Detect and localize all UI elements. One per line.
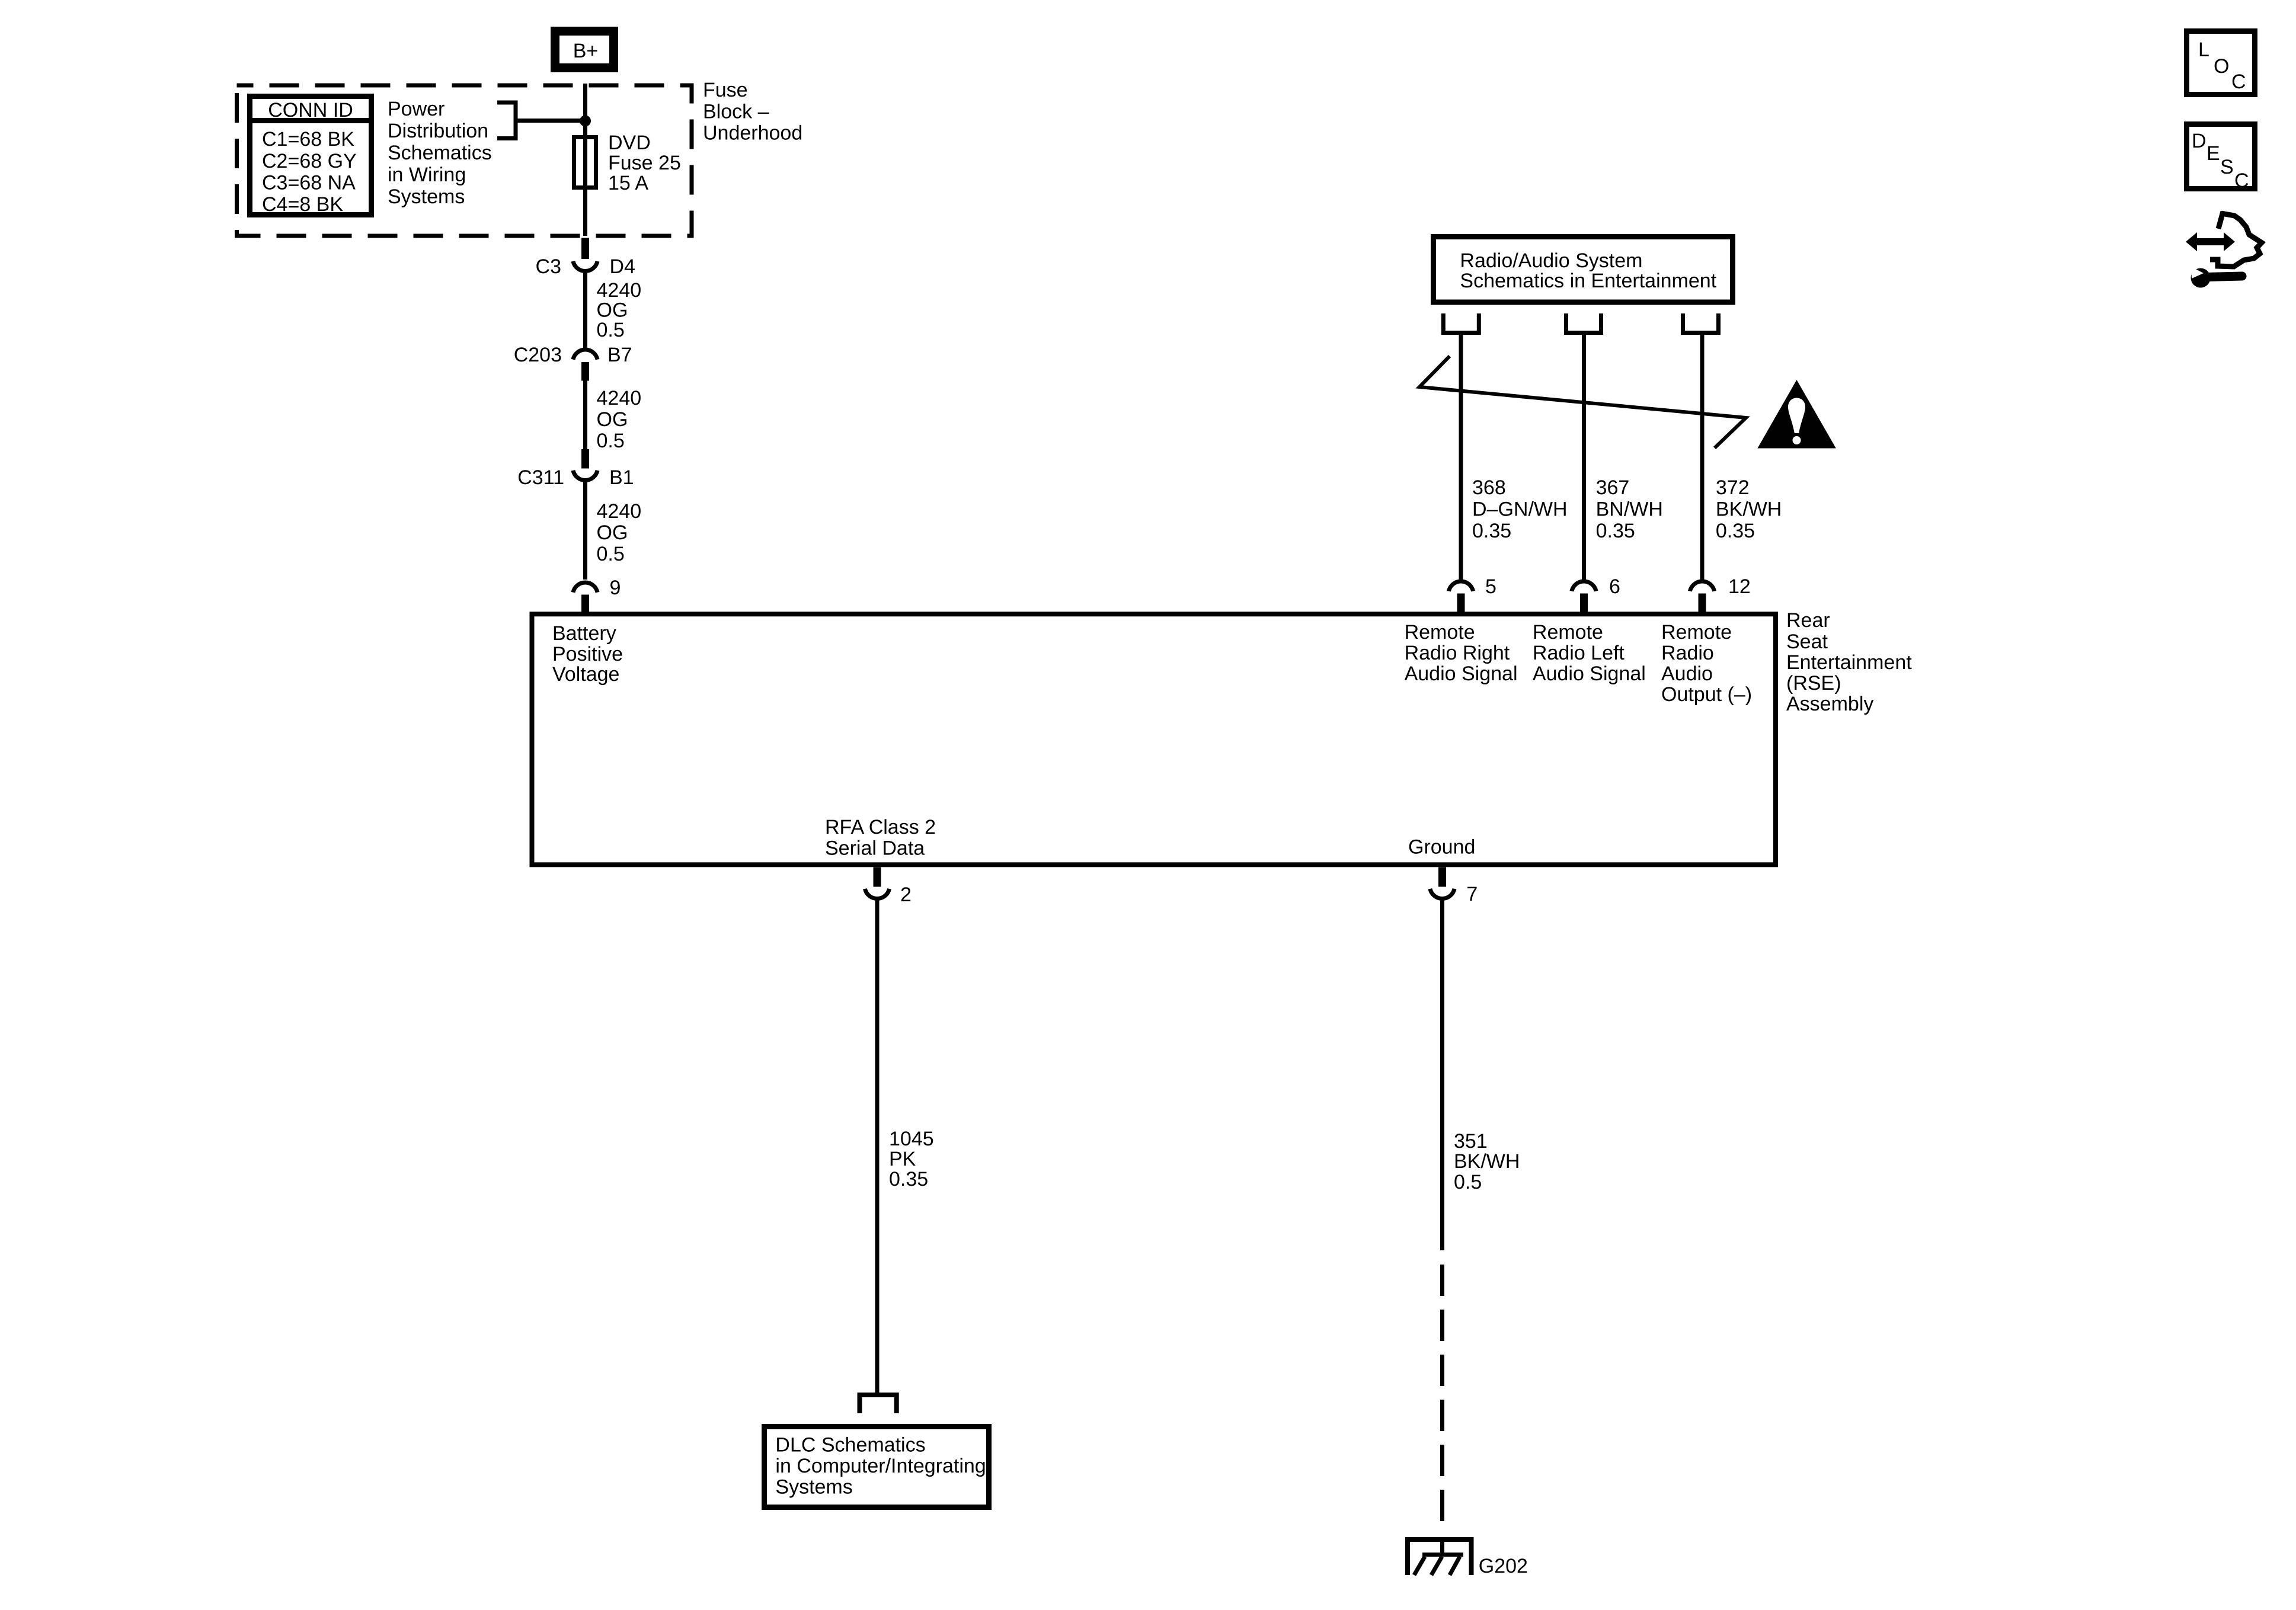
wire fuse to box bottom xyxy=(583,190,587,236)
fuse block dashed box (Fuse Block - Underhood) xyxy=(237,85,692,236)
svg-text:Remote: Remote xyxy=(1405,621,1475,644)
svg-text:S: S xyxy=(2220,156,2234,178)
Rear Seat Entertainment (RSE) Assembly box xyxy=(532,614,1776,865)
pin 6 connector at RSE box xyxy=(1572,575,1620,614)
svg-text:Entertainment: Entertainment xyxy=(1786,651,1912,674)
svg-text:Assembly: Assembly xyxy=(1786,693,1873,715)
svg-text:Battery: Battery xyxy=(552,622,616,645)
svg-text:D4: D4 xyxy=(610,255,635,278)
pin 7 connector at RSE box bottom xyxy=(1430,868,1478,906)
svg-text:C4=8 BK: C4=8 BK xyxy=(262,193,343,216)
label Rear Seat Entertainment (RSE) Assembly xyxy=(1786,609,1912,715)
wire 368 (radio right) xyxy=(1459,333,1463,580)
ground G202 xyxy=(1408,1539,1528,1577)
fuse DVD Fuse 25 15 A xyxy=(574,137,596,190)
svg-text:Ground: Ground xyxy=(1408,836,1475,859)
junction dot xyxy=(580,116,591,127)
svg-text:372: 372 xyxy=(1716,476,1750,499)
svg-text:5: 5 xyxy=(1485,575,1496,598)
svg-text:Power: Power xyxy=(388,98,445,120)
wire pin 7 down (solid) xyxy=(1440,898,1444,1250)
svg-text:DLC Schematics: DLC Schematics xyxy=(775,1434,925,1457)
wire label 367 BN/WH 0.35 xyxy=(1596,476,1663,542)
DLC Schematics box xyxy=(765,1427,989,1507)
svg-text:C311: C311 xyxy=(517,466,564,489)
svg-text:Schematics in Entertainment: Schematics in Entertainment xyxy=(1460,270,1716,292)
svg-text:Systems: Systems xyxy=(388,185,465,208)
svg-text:C3: C3 xyxy=(536,255,561,278)
wire pin 7 down (dashed) xyxy=(1440,1265,1444,1521)
svg-text:C: C xyxy=(2231,71,2246,93)
svg-text:Remote: Remote xyxy=(1661,621,1732,644)
svg-text:0.5: 0.5 xyxy=(597,430,625,452)
bracket stub 2 under Radio/Audio box xyxy=(1566,313,1601,333)
svg-text:Rear: Rear xyxy=(1786,609,1830,632)
svg-text:L: L xyxy=(2198,39,2209,61)
svg-text:Output (–): Output (–) xyxy=(1661,683,1752,706)
svg-text:Radio/Audio System: Radio/Audio System xyxy=(1460,249,1642,272)
wire label 4240 OG 0.5 (2) xyxy=(597,387,642,452)
component view icon (double arrow, outline, wrench) xyxy=(2186,212,2262,288)
svg-text:Radio Left: Radio Left xyxy=(1533,642,1625,664)
bracket stub above DLC box xyxy=(860,1395,897,1413)
wire label 1045 PK 0.35 xyxy=(889,1128,934,1190)
label Remote Radio Right Audio Signal xyxy=(1405,621,1518,685)
svg-text:OG: OG xyxy=(597,521,628,544)
svg-text:B+: B+ xyxy=(573,40,599,62)
svg-text:B7: B7 xyxy=(607,344,632,366)
svg-text:in Wiring: in Wiring xyxy=(388,164,466,186)
svg-text:Audio Signal: Audio Signal xyxy=(1405,662,1518,685)
svg-text:O: O xyxy=(2214,55,2229,78)
connector C203 B7 xyxy=(514,344,632,381)
DESC icon box xyxy=(2187,124,2255,193)
svg-text:Underhood: Underhood xyxy=(703,122,802,145)
svg-text:OG: OG xyxy=(597,408,628,431)
wire label 351 BK/WH 0.5 xyxy=(1454,1130,1520,1193)
svg-text:12: 12 xyxy=(1728,575,1751,598)
svg-text:7: 7 xyxy=(1466,883,1478,905)
connector C3 D4 xyxy=(536,238,635,279)
bracket stub 3 under Radio/Audio box xyxy=(1683,313,1719,333)
svg-text:C203: C203 xyxy=(514,344,562,366)
svg-text:367: 367 xyxy=(1596,476,1630,499)
svg-text:Systems: Systems xyxy=(775,1476,852,1499)
label Remote Radio Left Audio Signal xyxy=(1533,621,1646,685)
svg-text:D–GN/WH: D–GN/WH xyxy=(1472,498,1568,521)
svg-text:Remote: Remote xyxy=(1533,621,1603,644)
label Fuse Block - Underhood xyxy=(703,79,802,145)
svg-text:0.35: 0.35 xyxy=(1472,520,1511,542)
svg-text:15 A: 15 A xyxy=(608,172,648,194)
svg-text:6: 6 xyxy=(1609,575,1620,598)
svg-text:C3=68 NA: C3=68 NA xyxy=(262,172,356,194)
svg-text:Audio Signal: Audio Signal xyxy=(1533,662,1646,685)
label Remote Radio Audio Output (-) xyxy=(1661,621,1752,706)
svg-text:DVD: DVD xyxy=(608,132,651,154)
svg-text:351: 351 xyxy=(1454,1130,1488,1153)
bracket pointer from Power Distribution text xyxy=(497,103,516,139)
svg-text:PK: PK xyxy=(889,1148,916,1170)
svg-text:0.35: 0.35 xyxy=(889,1168,928,1190)
svg-text:Voltage: Voltage xyxy=(552,663,619,686)
svg-text:4240: 4240 xyxy=(597,500,642,523)
wire C3 to C203 xyxy=(583,270,587,348)
svg-text:OG: OG xyxy=(597,299,628,322)
wire 372 (audio output) xyxy=(1700,333,1705,580)
power feed B+ box xyxy=(555,31,614,68)
pin 2 connector at RSE box bottom xyxy=(865,868,911,907)
pin 9 connector at RSE box xyxy=(573,577,621,614)
Radio/Audio System box xyxy=(1434,237,1733,303)
svg-text:(RSE): (RSE) xyxy=(1786,672,1841,694)
wire pin 2 to DLC bracket xyxy=(875,898,880,1393)
svg-text:0.35: 0.35 xyxy=(1596,520,1635,542)
wire 367 (radio left) xyxy=(1582,333,1586,580)
LOC icon box xyxy=(2187,31,2255,95)
pin 5 connector at RSE box xyxy=(1448,575,1496,614)
svg-text:9: 9 xyxy=(610,577,621,599)
svg-text:in Computer/Integrating: in Computer/Integrating xyxy=(775,1455,986,1477)
svg-text:0.5: 0.5 xyxy=(597,543,625,565)
wire C203 to C311 xyxy=(583,381,587,450)
svg-text:E: E xyxy=(2207,142,2220,165)
svg-text:Audio: Audio xyxy=(1661,662,1713,685)
label DVD Fuse 25 15 A xyxy=(608,132,681,194)
svg-text:Schematics: Schematics xyxy=(388,142,492,164)
wire label 368 D-GN/WH 0.35 xyxy=(1472,476,1568,542)
label Power Distribution Schematics in Wiring Systems xyxy=(388,98,492,208)
svg-text:B1: B1 xyxy=(609,466,634,489)
svg-text:Fuse 25: Fuse 25 xyxy=(608,152,681,174)
wire from B+ down into fuse block xyxy=(583,84,587,137)
label RFA Class 2 Serial Data xyxy=(825,816,936,860)
svg-text:RFA Class 2: RFA Class 2 xyxy=(825,816,936,838)
pin 12 connector at RSE box xyxy=(1690,575,1750,614)
twisted pair callout line xyxy=(1419,356,1746,448)
svg-text:Seat: Seat xyxy=(1786,630,1828,653)
svg-text:Radio Right: Radio Right xyxy=(1405,642,1510,664)
svg-text:C2=68 GY: C2=68 GY xyxy=(262,150,357,172)
svg-text:Block –: Block – xyxy=(703,101,769,123)
svg-text:0.5: 0.5 xyxy=(597,319,625,341)
CONN ID table xyxy=(247,97,374,216)
svg-text:CONN ID: CONN ID xyxy=(268,99,353,121)
connector C311 B1 xyxy=(517,449,634,489)
svg-text:4240: 4240 xyxy=(597,279,642,302)
wire label 372 BK/WH 0.35 xyxy=(1716,476,1782,542)
svg-text:BK/WH: BK/WH xyxy=(1454,1150,1520,1173)
svg-text:1045: 1045 xyxy=(889,1128,934,1150)
svg-text:D: D xyxy=(2192,130,2207,152)
bracket stub 1 under Radio/Audio box xyxy=(1443,313,1479,333)
svg-text:BK/WH: BK/WH xyxy=(1716,498,1782,521)
svg-text:Serial Data: Serial Data xyxy=(825,837,925,860)
svg-text:Radio: Radio xyxy=(1661,642,1714,664)
wire label 4240 OG 0.5 (3) xyxy=(597,500,642,565)
svg-text:0.35: 0.35 xyxy=(1716,520,1755,542)
svg-text:Distribution: Distribution xyxy=(388,120,488,142)
label Ground xyxy=(1408,836,1475,859)
svg-text:Positive: Positive xyxy=(552,643,623,665)
label Battery Positive Voltage xyxy=(552,622,623,686)
wire label 4240 OG 0.5 (1) xyxy=(597,279,642,341)
svg-text:4240: 4240 xyxy=(597,387,642,409)
svg-text:0.5: 0.5 xyxy=(1454,1171,1482,1193)
wire from bracket to junction xyxy=(516,119,586,123)
wire C311 to pin 9 xyxy=(583,479,587,580)
svg-text:368: 368 xyxy=(1472,476,1506,499)
svg-text:2: 2 xyxy=(900,884,912,906)
svg-text:G202: G202 xyxy=(1479,1555,1528,1577)
svg-text:Fuse: Fuse xyxy=(703,79,748,101)
svg-text:BN/WH: BN/WH xyxy=(1596,498,1663,521)
svg-text:C: C xyxy=(2234,169,2249,192)
warning triangle xyxy=(1757,380,1835,449)
svg-text:C1=68 BK: C1=68 BK xyxy=(262,128,354,151)
